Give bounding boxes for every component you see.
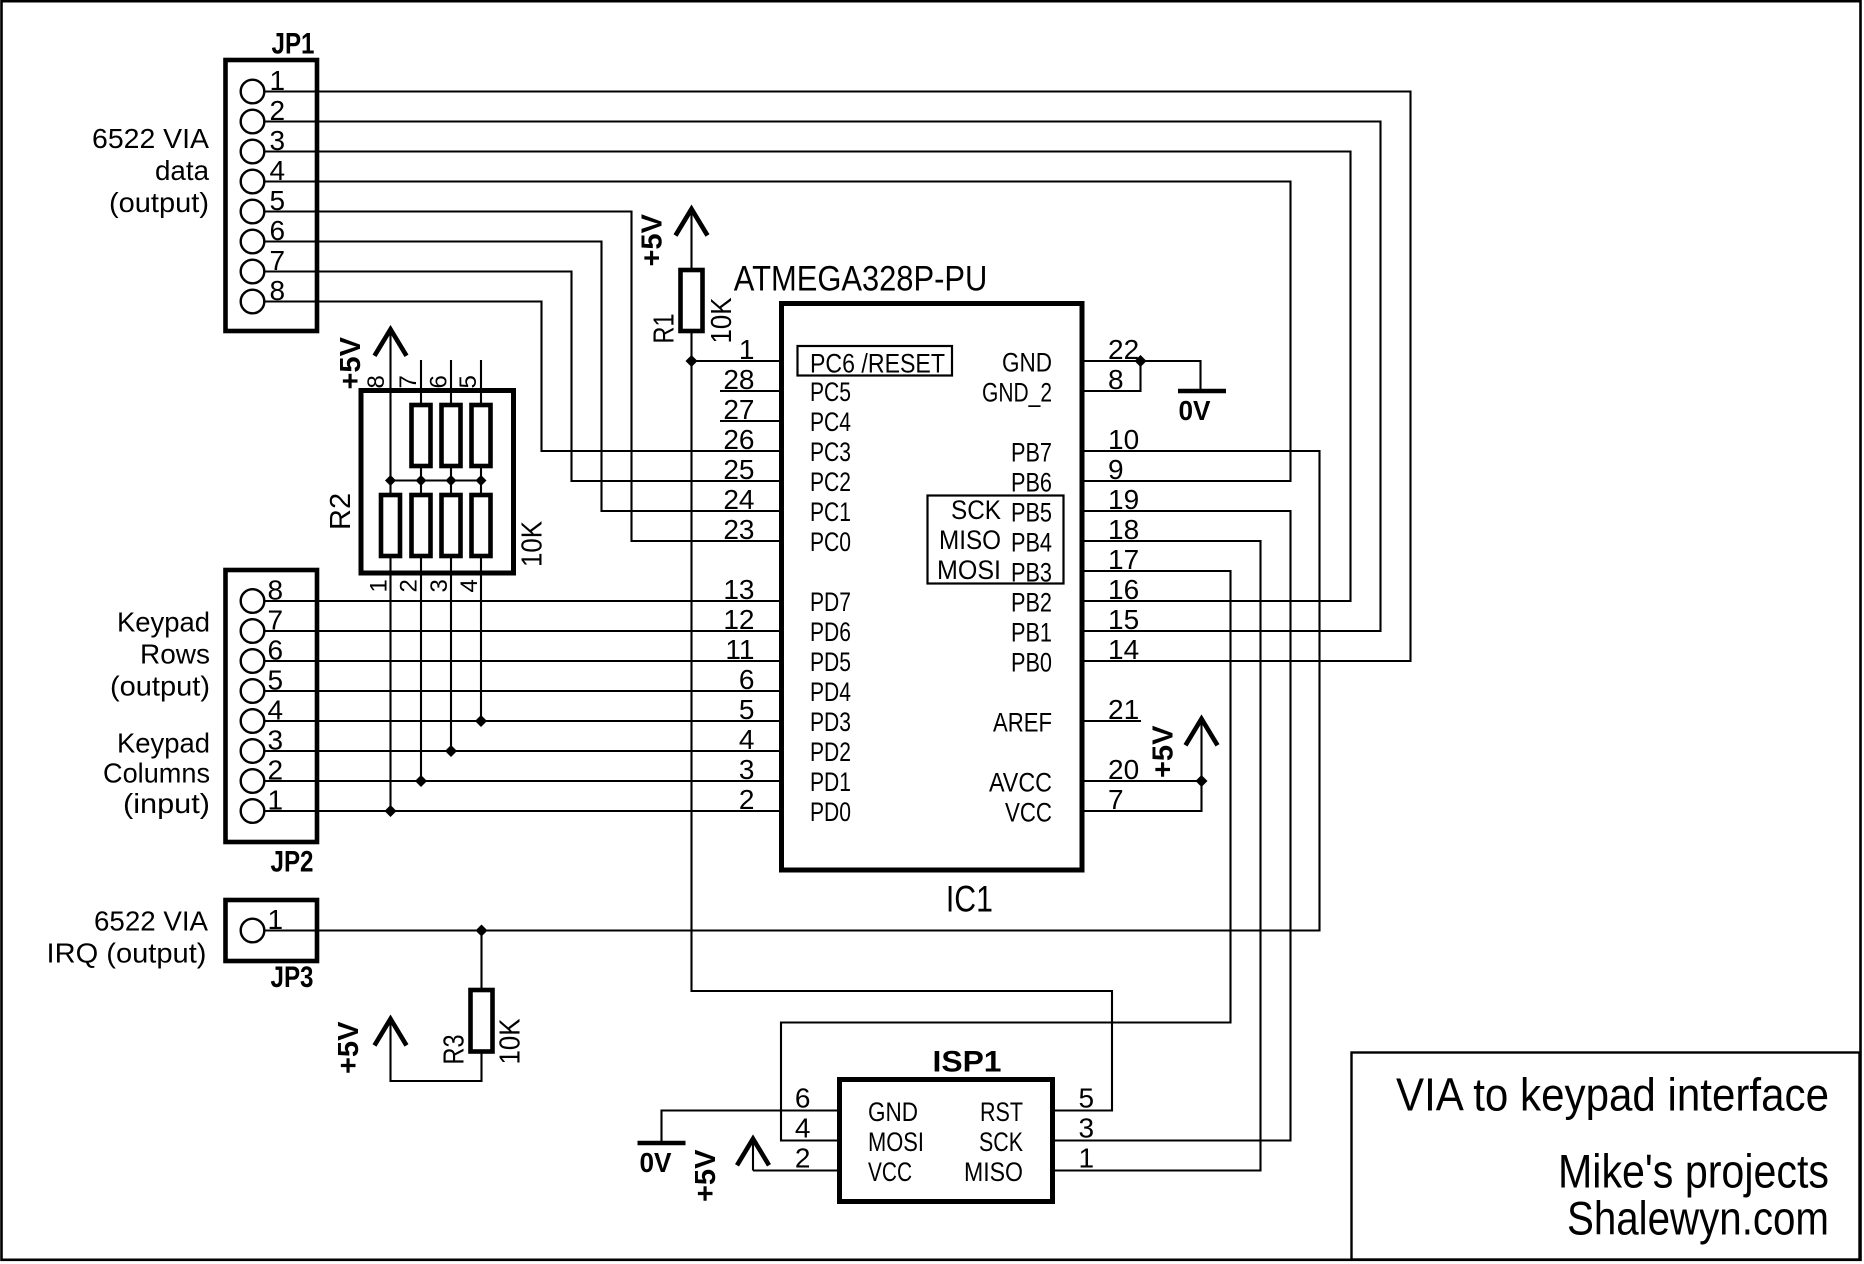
JP2 pin 6 circle bbox=[241, 649, 265, 673]
junction R2 bus pin 7 bbox=[416, 475, 427, 486]
svg-text:PD5: PD5 bbox=[810, 647, 851, 677]
svg-text:PB4: PB4 bbox=[1011, 528, 1052, 558]
svg-text:Shalewyn.com: Shalewyn.com bbox=[1567, 1192, 1829, 1245]
svg-text:1: 1 bbox=[1079, 1143, 1095, 1174]
R2 wire bus to resistor 4 bbox=[480, 481, 482, 496]
R2 wire bus to resistor 3 bbox=[450, 481, 452, 496]
svg-text:9: 9 bbox=[1108, 454, 1124, 485]
svg-text:PB7: PB7 bbox=[1011, 438, 1052, 468]
connector ISP1 body bbox=[840, 1080, 1053, 1202]
svg-text:26: 26 bbox=[723, 424, 754, 455]
svg-text:10: 10 bbox=[1108, 424, 1139, 455]
svg-text:15: 15 bbox=[1108, 604, 1139, 635]
svg-text:5: 5 bbox=[1079, 1083, 1095, 1114]
IC1 ISP function box SCK MISO MOSI bbox=[928, 496, 1064, 584]
resistor network R2 body bbox=[361, 391, 514, 574]
JP2 pin 8 circle bbox=[241, 589, 265, 613]
ground 0V symbol at ISP1 bbox=[638, 1143, 686, 1178]
svg-text:PD2: PD2 bbox=[810, 737, 851, 767]
JP1 pin 4 circle bbox=[241, 170, 265, 194]
JP2 pin 1 circle bbox=[241, 799, 265, 823]
IC1 pin 28 stub PC5 bbox=[720, 390, 782, 392]
svg-text:+5V: +5V bbox=[690, 1149, 722, 1202]
svg-text:21: 21 bbox=[1108, 694, 1139, 725]
svg-text:PC0: PC0 bbox=[810, 527, 851, 557]
svg-text:14: 14 bbox=[1108, 634, 1139, 665]
JP2 pin 5 circle bbox=[241, 679, 265, 703]
R2 wire resistor 6 to bus bbox=[450, 466, 452, 481]
svg-text:PC1: PC1 bbox=[810, 497, 851, 527]
svg-text:AREF: AREF bbox=[993, 708, 1052, 738]
svg-text:+5V: +5V bbox=[333, 1021, 365, 1074]
svg-text:PC6 /RESET: PC6 /RESET bbox=[810, 349, 945, 379]
R2 wire resistor 5 to bus bbox=[480, 466, 482, 481]
svg-text:3: 3 bbox=[1079, 1113, 1095, 1144]
wire JP2.1 to PD0 bbox=[264, 810, 782, 812]
svg-text:7: 7 bbox=[395, 375, 422, 388]
svg-text:2: 2 bbox=[739, 784, 755, 815]
svg-text:PD4: PD4 bbox=[810, 677, 851, 707]
svg-text:(output): (output) bbox=[109, 187, 209, 218]
wire ISP1.2 VCC to +5V bbox=[753, 1169, 840, 1171]
svg-text:PB1: PB1 bbox=[1011, 618, 1052, 648]
wire +5V to R1 bbox=[690, 212, 692, 270]
svg-text:MOSI: MOSI bbox=[868, 1127, 924, 1157]
JP1 pin 8 circle bbox=[241, 290, 265, 314]
resistor R3 bbox=[471, 990, 493, 1052]
svg-text:+5V: +5V bbox=[637, 213, 669, 266]
wire JP1.5 to PC0 bbox=[264, 212, 782, 542]
svg-text:PB2: PB2 bbox=[1011, 588, 1052, 618]
R2 pin 2 wire to JP2.2 row bbox=[420, 556, 422, 781]
svg-text:PB5: PB5 bbox=[1011, 498, 1052, 528]
svg-text:IC1: IC1 bbox=[946, 879, 993, 920]
R2 pin 6 stub bbox=[450, 360, 452, 405]
svg-text:RST: RST bbox=[980, 1097, 1023, 1127]
IC1 pin 21 stub AREF bbox=[1082, 720, 1141, 722]
svg-text:Columns: Columns bbox=[103, 758, 210, 789]
label 6522 VIA IRQ (output) bbox=[47, 906, 209, 969]
wire JP1.1 to PB0 bbox=[264, 92, 1411, 662]
junction R2 bus pin 8 bbox=[385, 475, 396, 486]
R2 pin 4 wire to JP2.4 row bbox=[480, 556, 482, 721]
svg-text:(input): (input) bbox=[123, 788, 210, 819]
wire ISP1.6 GND to 0V bbox=[662, 1111, 840, 1142]
R2 resistor element pin 4 bbox=[472, 495, 491, 556]
svg-text:MOSI: MOSI bbox=[937, 555, 1001, 585]
R2 wire bus to resistor 2 bbox=[420, 481, 422, 496]
junction R2 bus pin 5 bbox=[476, 475, 487, 486]
JP1 pin 3 circle bbox=[241, 140, 265, 164]
svg-text:+5V: +5V bbox=[1148, 725, 1180, 778]
wire IC GND_2 pin 8 to ground node bbox=[1082, 361, 1141, 391]
connector JP3 body bbox=[226, 900, 318, 961]
svg-text:25: 25 bbox=[723, 454, 754, 485]
svg-text:2: 2 bbox=[795, 1143, 811, 1174]
wire JP3.1 IRQ to PB7 bbox=[264, 451, 1320, 931]
JP2 pin 7 circle bbox=[241, 619, 265, 643]
wire JP2.4 to PD3 bbox=[264, 720, 782, 722]
svg-text:PD7: PD7 bbox=[810, 587, 851, 617]
title block frame bbox=[1352, 1053, 1860, 1260]
svg-text:PB6: PB6 bbox=[1011, 468, 1052, 498]
junction R2.1 on JP2.1 wire bbox=[385, 805, 397, 817]
svg-text:10K: 10K bbox=[517, 520, 549, 567]
power +5V symbol on R2 pin 8 bbox=[335, 329, 407, 389]
label 6522 VIA data (output) bbox=[92, 123, 209, 218]
svg-text:VIA to keypad interface: VIA to keypad interface bbox=[1396, 1069, 1829, 1121]
wire AVCC pin 20 to +5V node bbox=[1082, 780, 1202, 782]
svg-text:PB0: PB0 bbox=[1011, 648, 1052, 678]
wire JP2.8 to PD7 bbox=[264, 600, 782, 602]
svg-text:SCK: SCK bbox=[979, 1127, 1023, 1157]
wire JP1.7 to PC2 bbox=[264, 272, 782, 482]
ground 0V symbol at IC bbox=[1178, 391, 1226, 426]
wire PB4 MISO to ISP1.1 bbox=[1054, 541, 1261, 1171]
junction RESET node bbox=[686, 355, 698, 367]
svg-text:(output): (output) bbox=[110, 671, 210, 702]
junction R2.4 on JP2.4 wire bbox=[475, 715, 487, 727]
junction IRQ / R3 bbox=[476, 925, 488, 937]
R2 resistor element pin 5 bbox=[472, 405, 491, 466]
wire JP2.7 to PD6 bbox=[264, 630, 782, 632]
R2 resistor element pin 6 bbox=[442, 405, 461, 466]
svg-text:PD0: PD0 bbox=[810, 797, 851, 827]
svg-text:13: 13 bbox=[723, 574, 754, 605]
svg-text:4: 4 bbox=[456, 579, 483, 592]
svg-text:JP1: JP1 bbox=[272, 28, 315, 61]
wire PB5 SCK to ISP1.3 bbox=[1054, 511, 1291, 1141]
JP1 pin 6 circle bbox=[241, 230, 265, 254]
wire JP1.6 to PC1 bbox=[264, 242, 782, 512]
svg-text:4: 4 bbox=[739, 724, 755, 755]
wire JP1.2 to PB1 bbox=[264, 122, 1381, 632]
wire IC GND pin 22 to ground bbox=[1082, 361, 1201, 389]
power +5V symbol at AVCC bbox=[1148, 719, 1218, 781]
junction R2.2 on JP2.2 wire bbox=[415, 775, 427, 787]
svg-text:3: 3 bbox=[426, 579, 453, 592]
JP2 pin 2 circle bbox=[241, 769, 265, 793]
svg-text:6: 6 bbox=[739, 664, 755, 695]
svg-text:PD3: PD3 bbox=[810, 707, 851, 737]
wire RESET net to ISP1 RST bbox=[692, 361, 1113, 1111]
svg-text:GND: GND bbox=[868, 1097, 918, 1127]
svg-text:PC3: PC3 bbox=[810, 437, 851, 467]
svg-text:Keypad: Keypad bbox=[117, 607, 210, 638]
svg-text:+5V: +5V bbox=[335, 336, 367, 389]
svg-text:PC4: PC4 bbox=[810, 407, 851, 437]
svg-text:ISP1: ISP1 bbox=[933, 1046, 1002, 1079]
svg-text:16: 16 bbox=[1108, 574, 1139, 605]
svg-text:24: 24 bbox=[723, 484, 754, 515]
svg-text:27: 27 bbox=[723, 394, 754, 425]
junction R2 bus pin 6 bbox=[446, 475, 457, 486]
junction GND node bbox=[1135, 355, 1147, 367]
wire JP2.6 to PD5 bbox=[264, 660, 782, 662]
svg-text:MISO: MISO bbox=[964, 1157, 1023, 1187]
JP1 pin 7 circle bbox=[241, 260, 265, 284]
svg-text:VCC: VCC bbox=[1005, 798, 1052, 828]
svg-text:GND_2: GND_2 bbox=[982, 378, 1052, 408]
svg-text:28: 28 bbox=[723, 364, 754, 395]
wire JP2.5 to PD4 bbox=[264, 690, 782, 692]
power +5V symbol at R3 bbox=[333, 1019, 407, 1074]
wire JP1.8 to PC3 bbox=[264, 302, 782, 452]
svg-text:1: 1 bbox=[366, 579, 393, 592]
svg-text:3: 3 bbox=[739, 754, 755, 785]
svg-text:Rows: Rows bbox=[140, 639, 210, 670]
svg-text:4: 4 bbox=[795, 1113, 811, 1144]
R2 resistor element pin 2 bbox=[412, 495, 431, 556]
svg-text:6: 6 bbox=[795, 1083, 811, 1114]
svg-text:R3: R3 bbox=[439, 1035, 471, 1065]
svg-text:1: 1 bbox=[739, 334, 755, 365]
power +5V symbol above R1 bbox=[637, 209, 708, 267]
wire PB3 MOSI to ISP1.4 bbox=[781, 571, 1231, 1141]
svg-text:PC5: PC5 bbox=[810, 377, 851, 407]
resistor R1 bbox=[681, 270, 703, 331]
label Keypad Columns (input) bbox=[103, 728, 210, 820]
svg-text:6: 6 bbox=[425, 375, 452, 388]
svg-text:R1: R1 bbox=[649, 314, 681, 344]
svg-text:PD1: PD1 bbox=[810, 767, 851, 797]
svg-text:JP2: JP2 bbox=[271, 846, 314, 879]
svg-text:JP3: JP3 bbox=[271, 961, 314, 994]
IC1 pin 27 stub PC4 bbox=[720, 420, 782, 422]
R2 pin 8 wire from +5V to common bus bbox=[389, 332, 391, 481]
wire R3 to +5V bbox=[391, 1022, 482, 1081]
power +5V symbol at ISP1 bbox=[690, 1139, 769, 1202]
svg-text:ATMEGA328P-PU: ATMEGA328P-PU bbox=[734, 260, 988, 299]
junction R2.3 on JP2.3 wire bbox=[445, 745, 457, 757]
svg-text:GND: GND bbox=[1002, 348, 1052, 378]
wire JP2.2 to PD1 bbox=[264, 780, 782, 782]
svg-text:data: data bbox=[155, 155, 209, 186]
JP3 pin 1 circle bbox=[241, 919, 265, 943]
junction AVCC/VCC node bbox=[1196, 775, 1208, 787]
JP1 pin 2 circle bbox=[241, 110, 265, 134]
svg-text:MISO: MISO bbox=[939, 525, 1001, 555]
wire IRQ node to R3 bbox=[480, 931, 482, 991]
svg-text:11: 11 bbox=[725, 634, 754, 665]
svg-text:0V: 0V bbox=[640, 1147, 672, 1178]
svg-text:12: 12 bbox=[723, 604, 754, 635]
svg-text:8: 8 bbox=[363, 375, 390, 388]
svg-text:6522 VIA: 6522 VIA bbox=[94, 906, 208, 937]
svg-text:5: 5 bbox=[455, 375, 482, 388]
JP1 pin 1 circle bbox=[241, 80, 265, 104]
wire JP2.3 to PD2 bbox=[264, 750, 782, 752]
svg-text:Keypad: Keypad bbox=[117, 728, 210, 759]
connector JP1 body bbox=[226, 60, 318, 331]
R2 pin 3 wire to JP2.3 row bbox=[450, 556, 452, 751]
svg-text:Mike's projects: Mike's projects bbox=[1558, 1145, 1829, 1198]
svg-text:PD6: PD6 bbox=[810, 617, 851, 647]
R2 common bus wire bbox=[391, 479, 482, 481]
svg-text:VCC: VCC bbox=[868, 1157, 912, 1187]
wire JP1.4 to PB6 bbox=[264, 182, 1291, 482]
svg-text:5: 5 bbox=[739, 694, 755, 725]
R2 resistor element pin 1 bbox=[381, 495, 400, 556]
R2 wire resistor 7 to bus bbox=[420, 466, 422, 481]
R2 pin 5 stub bbox=[480, 360, 482, 405]
svg-text:6522 VIA: 6522 VIA bbox=[92, 123, 209, 154]
R2 wire bus to resistor 1 bbox=[389, 481, 391, 496]
R2 pin 1 wire to JP2.1 row bbox=[389, 556, 391, 811]
wire JP1.3 to PB2 bbox=[264, 152, 1351, 602]
JP2 pin 3 circle bbox=[241, 739, 265, 763]
wire RESET node to IC pin 1 bbox=[692, 360, 783, 362]
svg-text:SCK: SCK bbox=[951, 495, 1001, 525]
JP1 pin 5 circle bbox=[241, 200, 265, 224]
wire VCC pin 7 to +5V node bbox=[1082, 781, 1202, 811]
IC1 pin name box PC6 /RESET bbox=[798, 346, 953, 376]
R2 resistor element pin 7 bbox=[412, 405, 431, 466]
svg-text:10K: 10K bbox=[706, 297, 738, 344]
IC U1 ATMEGA328P-PU body bbox=[782, 304, 1083, 871]
wire R1 to RESET node bbox=[690, 331, 692, 361]
svg-text:IRQ (output): IRQ (output) bbox=[47, 938, 207, 969]
R2 pin 7 stub bbox=[420, 360, 422, 405]
JP2 pin 4 circle bbox=[241, 709, 265, 733]
connector JP2 body bbox=[226, 570, 318, 842]
svg-text:10K: 10K bbox=[494, 1018, 526, 1065]
svg-text:23: 23 bbox=[723, 514, 754, 545]
label Keypad Rows (output) bbox=[110, 607, 210, 702]
svg-text:AVCC: AVCC bbox=[989, 768, 1052, 798]
svg-text:R2: R2 bbox=[325, 493, 357, 530]
svg-text:2: 2 bbox=[396, 579, 423, 592]
svg-text:PC2: PC2 bbox=[810, 467, 851, 497]
R2 resistor element pin 3 bbox=[442, 495, 461, 556]
svg-text:0V: 0V bbox=[1179, 395, 1211, 426]
